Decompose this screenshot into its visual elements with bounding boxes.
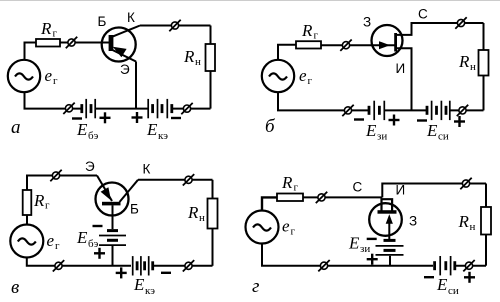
svg-text:г: г [314, 30, 319, 42]
minus sign Eзи (б) [354, 118, 364, 120]
plus sign Eси (г) [464, 272, 475, 283]
svg-text:зи: зи [360, 243, 370, 255]
FET VT (б) drain lead [396, 23, 484, 35]
svg-text:г: г [55, 240, 60, 252]
transistor VT (в) emitter arrow [101, 187, 111, 200]
battery Eси (г) [435, 256, 455, 275]
AC source eг (a) [8, 60, 40, 92]
svg-text:E: E [76, 120, 88, 139]
svg-text:E: E [436, 275, 448, 294]
svg-text:R: R [187, 203, 199, 222]
svg-text:г: г [291, 226, 296, 238]
svg-text:К: К [143, 162, 151, 177]
MOSFET VT (г) gate arrow shaft [388, 222, 390, 240]
wire top rail left (в) [27, 176, 97, 191]
svg-text:E: E [76, 228, 88, 247]
svg-text:e: e [299, 66, 307, 85]
svg-text:зи: зи [377, 131, 387, 143]
terminal bottom-left (в) [53, 260, 64, 271]
transistor VT (в) collector line [120, 180, 139, 202]
svg-text:б: б [265, 116, 276, 137]
battery Eкэ (в) [133, 256, 153, 275]
wire base down (в) [112, 205, 114, 229]
wire Eси to corner (б) [450, 109, 484, 111]
wire source-top to resistor (б) [278, 45, 296, 60]
battery Eбэ (a) [82, 99, 95, 118]
wire emitter down (a) [135, 62, 137, 109]
svg-text:си: си [438, 131, 449, 143]
terminal top-left (в) [50, 170, 61, 181]
AC source eг (г) [246, 211, 279, 244]
svg-text:С: С [353, 180, 363, 195]
svg-text:Э: Э [85, 159, 95, 174]
wire source-bottom to battery (б) [278, 92, 368, 110]
minus sign Eкэ (a) [171, 117, 181, 119]
svg-text:К: К [127, 10, 135, 25]
svg-text:г: г [53, 28, 58, 40]
plus sign Eкэ (a) [132, 112, 143, 123]
plus sign Eбэ (в) [94, 248, 105, 259]
MOSFET VT (г) gate arrow head [386, 214, 393, 224]
gate arrow (б) [379, 41, 390, 49]
wire Eкэ to corner (в) [154, 265, 213, 267]
svg-text:И: И [396, 183, 406, 198]
svg-text:н: н [470, 221, 476, 233]
resistor Rн (б) [479, 50, 489, 76]
svg-text:И: И [396, 61, 406, 76]
svg-text:R: R [458, 52, 470, 71]
terminal on top rail (г) [460, 178, 471, 189]
wire right side upper (в) [212, 180, 214, 199]
wire right side lower (б) [483, 76, 485, 111]
svg-text:г: г [308, 75, 313, 87]
wire right side upper (a) [210, 26, 212, 45]
wire source-lead riser to top rail (г) [382, 184, 486, 198]
MOSFET VT (г) circle [369, 203, 402, 236]
terminal bottom-right (г) [463, 260, 474, 271]
terminal bottom-right (б) [457, 105, 468, 116]
minus sign Eкэ (в) [161, 272, 171, 274]
transistor VT (a) collector line [112, 26, 140, 37]
svg-text:си: си [448, 285, 459, 297]
svg-text:кэ: кэ [145, 285, 155, 297]
resistor Rг (б) [296, 41, 321, 48]
svg-text:e: e [45, 66, 53, 85]
svg-text:г: г [53, 75, 58, 87]
svg-text:Б: Б [98, 14, 107, 29]
FET VT (б) channel bar [394, 33, 397, 52]
svg-text:З: З [409, 214, 417, 229]
plus sign Eкэ (в) [116, 267, 127, 278]
wire Eбэ to rail (в) [112, 246, 114, 266]
terminal bottom-left (a) [63, 103, 74, 114]
AC source eг (в) [10, 225, 43, 258]
transistor VT (в) emitter line [97, 176, 112, 202]
transistor VT (a) emitter line [113, 50, 137, 62]
svg-text:кэ: кэ [158, 130, 168, 142]
wire resistor to drain contact (г) [303, 196, 382, 198]
svg-text:R: R [33, 191, 45, 210]
battery Eзи (г) vertical [376, 240, 404, 255]
svg-text:e: e [47, 231, 55, 250]
wire resistor to base (a) [60, 42, 109, 44]
terminal on gate wire (б) [340, 40, 351, 51]
wire Eзи to rail (г) [389, 256, 391, 266]
FET VT (б) circle [372, 25, 403, 56]
wire resistor to gate (б) [321, 44, 395, 46]
resistor Rг (a) [36, 39, 60, 47]
resistor Rг (г) [277, 194, 303, 202]
svg-text:Э: Э [120, 62, 130, 77]
svg-text:E: E [365, 121, 377, 140]
AC source eг (б) [262, 60, 294, 92]
svg-text:н: н [470, 61, 476, 73]
svg-text:г: г [294, 182, 299, 194]
terminal on drain rail (б) [455, 17, 466, 28]
wire junction to Eси (б) [385, 109, 427, 111]
transistor VT (a) circle [102, 28, 136, 62]
svg-text:н: н [195, 56, 201, 68]
wire source-top to resistor (г) [262, 197, 277, 210]
FET VT (б) source lead [396, 48, 412, 110]
resistor Rн (a) [206, 44, 216, 71]
battery Eкэ (a) [148, 99, 172, 118]
terminal bottom-left (б) [342, 105, 353, 116]
terminal on drain wire (г) [316, 192, 327, 203]
battery Eбэ (в) vertical [99, 231, 126, 246]
svg-text:З: З [363, 15, 371, 30]
svg-text:бэ: бэ [88, 238, 99, 250]
svg-text:E: E [146, 120, 158, 139]
svg-text:R: R [281, 173, 293, 192]
plus sign Eси (б) [454, 116, 465, 127]
transistor VT (a) base bar [109, 35, 114, 51]
MOSFET VT (г) channel bar [378, 210, 397, 214]
transistor VT (в) circle [96, 183, 129, 216]
wire Eси to corner (г) [456, 265, 487, 267]
minus sign Eси (г) [424, 276, 434, 278]
wire between batteries (a) [96, 108, 148, 110]
wire source-top to resistor (a) [25, 43, 37, 60]
wire resistor to source (в) [26, 215, 28, 224]
battery Eси (б) [427, 101, 450, 120]
svg-text:С: С [418, 7, 428, 22]
wire source-bottom to battery (a) [25, 92, 81, 108]
minus sign Eбэ (в) [93, 225, 103, 227]
terminal bottom-right (в) [183, 260, 194, 271]
svg-text:E: E [426, 121, 438, 140]
svg-text:e: e [282, 217, 290, 236]
svg-text:в: в [11, 277, 19, 298]
resistor Rн (г) [481, 207, 491, 235]
scan artifact top border line [0, 0, 500, 2]
wire right side lower (в) [212, 229, 214, 266]
wire battery to corner (a) [173, 108, 211, 110]
wire source-bottom to rail (г) [262, 244, 433, 266]
wire collector rail (a) [140, 25, 211, 27]
transistor VT (a) emitter arrow [113, 47, 127, 57]
svg-text:Б: Б [130, 202, 139, 217]
minus sign Eбэ (a) [72, 117, 82, 119]
terminal bottom-left (г) [318, 260, 329, 271]
terminal on collector rail (a) [169, 20, 180, 31]
svg-text:E: E [133, 275, 145, 294]
terminal bottom-right (a) [181, 103, 192, 114]
terminal on input wire (a) [66, 37, 77, 48]
plus sign Eзи (б) [389, 115, 400, 126]
resistor Rг (в) [23, 190, 32, 215]
svg-text:R: R [40, 19, 52, 38]
plus sign Eзи (г) [367, 254, 378, 265]
minus sign Eси (б) [417, 119, 427, 121]
svg-text:R: R [301, 21, 313, 40]
wire right side lower (г) [485, 235, 487, 266]
svg-text:R: R [458, 212, 470, 231]
resistor Rн (в) [208, 199, 218, 229]
svg-text:а: а [11, 117, 21, 138]
svg-text:н: н [199, 212, 205, 224]
MOSFET VT (г) contact hat [382, 199, 393, 210]
svg-text:бэ: бэ [88, 130, 99, 142]
wire collector rail (в) [138, 179, 213, 181]
svg-text:R: R [183, 47, 195, 66]
wire right side lower (a) [210, 71, 212, 109]
wire right side upper (г) [485, 184, 487, 208]
svg-text:E: E [348, 234, 360, 253]
battery Eзи (б) [369, 101, 384, 120]
svg-text:г: г [252, 276, 259, 297]
wire right side upper (б) [483, 23, 485, 50]
wire source-bottom to rail (в) [27, 258, 131, 266]
minus sign Eзи (г) [367, 238, 377, 240]
terminal top-right (в) [183, 174, 194, 185]
svg-text:г: г [45, 200, 50, 212]
plus sign Eбэ (a) [100, 112, 111, 123]
transistor VT (в) base bar [102, 202, 121, 206]
